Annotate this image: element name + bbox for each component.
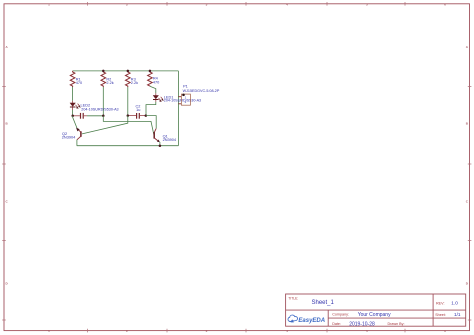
svg-text:1/1: 1/1 <box>454 312 461 317</box>
svg-text:Sheet_1: Sheet_1 <box>312 300 335 306</box>
wire R2 bottom <box>102 87 104 116</box>
junction node R4 top <box>149 70 152 73</box>
resistor R4 <box>148 71 153 86</box>
svg-text:Company:: Company: <box>332 312 349 316</box>
svg-text:204-10SURD/S530-A3: 204-10SURD/S530-A3 <box>164 99 201 103</box>
svg-text:2N3904: 2N3904 <box>62 136 76 140</box>
frame zone ticks bottom <box>88 329 406 333</box>
svg-text:Your Company: Your Company <box>358 312 391 318</box>
svg-text:1u: 1u <box>136 108 140 112</box>
svg-text:2019-10-28: 2019-10-28 <box>349 321 375 327</box>
transistor Q1 <box>154 128 160 142</box>
wire bottom rail <box>77 145 179 147</box>
capacitor C1 <box>73 113 87 119</box>
svg-text:Sheet:: Sheet: <box>435 313 446 317</box>
wire Q1 emitter to rail <box>159 142 161 146</box>
svg-text:2N3904: 2N3904 <box>163 138 177 142</box>
wire Q2 collector <box>73 116 78 129</box>
wire Q2 emitter to rail <box>76 140 78 146</box>
connector P1 <box>178 94 190 106</box>
svg-text:Drawn By:: Drawn By: <box>388 322 405 326</box>
node R3/C2 (Q2 base net) <box>127 114 130 117</box>
LED LED1 <box>153 93 164 102</box>
transistor Q2 <box>76 128 81 140</box>
wire C1 to R2 node <box>87 115 103 117</box>
EasyEDA logo <box>288 315 325 324</box>
svg-text:WJ15EDGVC-5.08-2P: WJ15EDGVC-5.08-2P <box>183 89 220 93</box>
svg-text:1.0: 1.0 <box>451 301 458 306</box>
wire LED1 jog from R4 <box>150 86 156 93</box>
resistor R1 <box>70 71 75 87</box>
node C2/LED1 (Q1 collector net) <box>145 114 148 117</box>
svg-text:470: 470 <box>153 81 159 85</box>
LED LED2 <box>70 101 81 110</box>
wire right vertical to P1 / bottom rail <box>177 71 179 146</box>
frame zone ticks left <box>2 87 6 321</box>
node LED2/C1 <box>71 115 74 118</box>
wire R3 bottom <box>127 87 129 116</box>
svg-text:REV:: REV: <box>436 302 444 306</box>
wire top rail V+ <box>73 70 179 72</box>
capacitor C2 <box>128 113 146 119</box>
svg-text:470: 470 <box>76 81 82 85</box>
frame zone ticks right <box>468 87 472 321</box>
junction node R3 top <box>127 70 130 73</box>
svg-text:TITLE:: TITLE: <box>288 296 298 300</box>
node R2/C1 (Q1 base net) <box>102 115 105 118</box>
resistor R2 <box>101 71 106 87</box>
resistor R3 <box>126 71 131 87</box>
svg-text:Date:: Date: <box>332 322 341 326</box>
wire R1 to LED2 <box>72 87 74 101</box>
node Q1 emitter / rail <box>159 145 162 148</box>
wire cross-coupling to Q1 base <box>103 116 154 136</box>
svg-text:EasyEDA: EasyEDA <box>298 318 325 324</box>
wire cross-coupling to Q2 base <box>82 116 128 134</box>
svg-text:2.2k: 2.2k <box>131 81 138 85</box>
junction node R2 top <box>102 70 105 73</box>
wire LED1 down-left to C2 node <box>146 102 156 116</box>
svg-text:204-10SURD/S530-A3: 204-10SURD/S530-A3 <box>81 107 118 111</box>
svg-text:2.2k: 2.2k <box>106 81 113 85</box>
wire LED2 to C1 node <box>72 110 74 116</box>
frame zone letters <box>6 45 469 286</box>
wire Q1 collector to C2 node <box>146 116 156 129</box>
frame zone ticks top <box>88 2 406 6</box>
